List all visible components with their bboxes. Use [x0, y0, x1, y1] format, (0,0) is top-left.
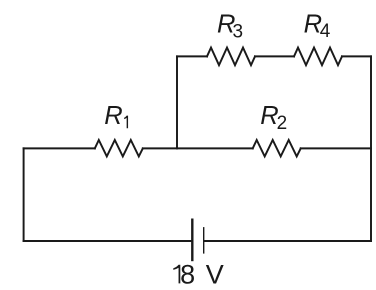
wire: bottom right segment from battery	[204, 240, 371, 242]
wire: middle horizontal R2 to right side	[301, 147, 371, 149]
svg-text:2: 2	[277, 113, 288, 134]
wire: bottom left segment to battery	[24, 240, 192, 242]
wire: middle horizontal R1 to junction node	[143, 147, 177, 149]
svg-text:3: 3	[233, 21, 244, 42]
battery B1 short plate	[203, 227, 205, 254]
svg-text:V: V	[206, 259, 224, 289]
resistor R4	[294, 48, 342, 66]
svg-text:4: 4	[320, 21, 331, 42]
svg-text:8: 8	[180, 259, 195, 289]
wire: branch vertical from junction up to top branch	[176, 56, 178, 148]
wire: top branch left stub to R3	[177, 55, 207, 57]
wire: left vertical side	[23, 148, 25, 241]
label battery value: digit 1 of 18 V	[173, 265, 180, 284]
resistor R1	[95, 140, 143, 156]
svg-text:R: R	[104, 102, 122, 130]
wire: right vertical side	[370, 56, 372, 241]
wire: top branch R3 to R4	[255, 55, 294, 57]
resistor R2	[253, 140, 301, 156]
wire: junction to R2	[177, 147, 253, 149]
wire: middle horizontal left stub to R1	[24, 147, 95, 149]
battery B1 long plate	[191, 219, 193, 262]
resistor R3	[207, 48, 255, 66]
label R1 subscript 1	[124, 116, 128, 129]
wire: top branch R4 to right corner	[342, 55, 371, 57]
